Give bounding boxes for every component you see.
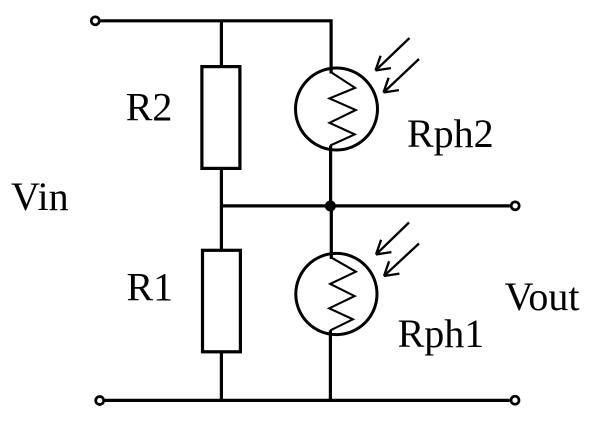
light arrow 2 of Rph2 xyxy=(384,59,420,93)
terminal mid-right Vout xyxy=(511,202,519,210)
wire top rail drop to Rph2 xyxy=(330,19,333,73)
resistor R1 xyxy=(203,250,241,351)
photoresistor Rph1 zigzag element xyxy=(329,258,356,330)
wire bottom rail xyxy=(105,399,510,402)
wire Rph1 bottom to bottom rail xyxy=(329,330,332,400)
photoresistor Rph2 zigzag element xyxy=(330,73,356,146)
label R1 xyxy=(127,265,174,310)
light arrow 2 of Rph1 xyxy=(384,244,419,277)
svg-text:Rph1: Rph1 xyxy=(398,311,485,356)
label Vout xyxy=(505,274,580,319)
svg-text:R1: R1 xyxy=(127,265,174,310)
label Rph1 xyxy=(398,311,485,356)
label Vin xyxy=(11,174,69,219)
terminal top-left xyxy=(91,17,99,25)
wire top rail drop to R2 xyxy=(220,21,223,67)
wire middle rail xyxy=(221,204,510,207)
svg-text:Vin: Vin xyxy=(11,174,69,219)
light arrow 1 of Rph2 xyxy=(376,38,410,71)
wire node to Rph1 xyxy=(330,206,333,259)
wire top rail xyxy=(101,19,332,22)
label R2 xyxy=(126,85,173,130)
resistor R2 xyxy=(202,67,240,169)
light arrow 1 of Rph1 xyxy=(376,223,409,255)
terminal bottom-left xyxy=(96,397,104,405)
svg-text:Vout: Vout xyxy=(505,274,580,319)
node junction dot xyxy=(325,201,336,212)
wire R1 bottom to bottom rail xyxy=(220,352,223,401)
svg-text:Rph2: Rph2 xyxy=(407,111,494,156)
photoresistor Rph1 circle xyxy=(296,253,377,334)
svg-text:R2: R2 xyxy=(126,85,173,130)
label Rph2 xyxy=(407,111,494,156)
photoresistor Rph2 circle xyxy=(296,68,378,150)
wire R2 bottom to middle rail xyxy=(220,168,223,250)
wire Rph2 bottom to node xyxy=(329,146,332,207)
terminal bottom-right xyxy=(511,396,519,404)
